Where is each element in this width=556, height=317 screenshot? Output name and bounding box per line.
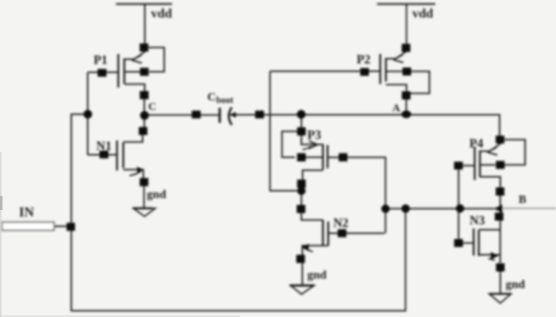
svg-text:gnd: gnd (147, 187, 167, 201)
svg-text:B: B (519, 194, 527, 206)
svg-text:A: A (392, 102, 400, 114)
svg-text:IN: IN (19, 205, 34, 220)
svg-text:P2: P2 (357, 53, 371, 67)
svg-text:P1: P1 (94, 53, 108, 67)
svg-text:N3: N3 (470, 214, 485, 228)
svg-text:N1: N1 (96, 139, 111, 153)
svg-text:boot: boot (216, 95, 233, 105)
svg-text:gnd: gnd (307, 268, 327, 282)
svg-text:C: C (207, 90, 216, 104)
svg-text:P4: P4 (469, 137, 484, 151)
svg-text:vdd: vdd (412, 6, 434, 21)
svg-text:P3: P3 (307, 128, 321, 142)
svg-text:gnd: gnd (506, 277, 526, 291)
svg-text:N2: N2 (333, 216, 348, 230)
svg-text:C: C (148, 101, 156, 113)
svg-text:vdd: vdd (151, 6, 173, 21)
